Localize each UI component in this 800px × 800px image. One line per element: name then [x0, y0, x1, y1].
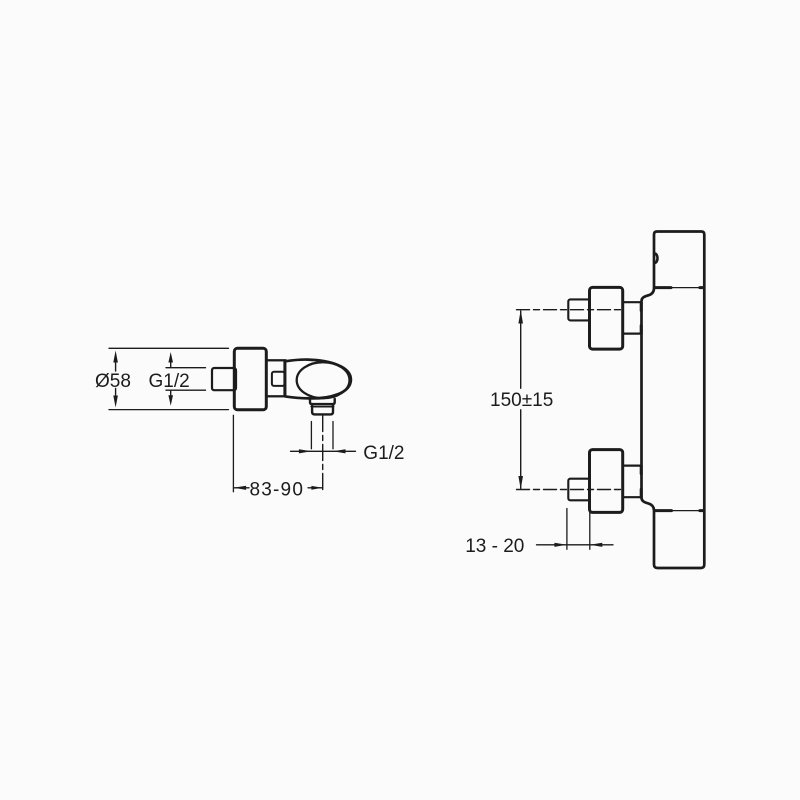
up arrow above (G1/2 left)	[168, 352, 173, 367]
outlet upper collar	[310, 399, 335, 404]
upper joint line	[655, 287, 703, 289]
ext line from flange left edge down	[232, 415, 234, 492]
dim ext line bottom (G1/2 left)	[166, 389, 206, 391]
dim line Ø58 lower with down arrow	[113, 389, 118, 408]
outlet dashed centerline	[322, 416, 324, 494]
ext line 13-20 right	[589, 509, 591, 550]
svg-text:83-90: 83-90	[250, 479, 305, 500]
lower centerline dashed	[517, 489, 622, 491]
svg-text:G1/2: G1/2	[363, 443, 404, 464]
svg-text:150±15: 150±15	[490, 390, 553, 411]
bump detail on bar left edge	[655, 254, 658, 263]
valve body knob ellipse	[297, 362, 350, 398]
shower bar body	[642, 232, 705, 569]
dim line 150±15	[518, 310, 523, 489]
lower union neck bottom edge	[623, 489, 641, 497]
lower union neck top edge	[623, 466, 641, 474]
lower union square pipe	[568, 479, 589, 501]
upper union neck top edge	[623, 302, 641, 310]
upper centerline dashed	[517, 309, 622, 311]
dim line G1/2 outlet	[291, 449, 356, 453]
dim line 83-90	[234, 486, 323, 490]
dim ext line top (G1/2 left)	[166, 367, 206, 369]
svg-text:G1/2: G1/2	[149, 371, 190, 392]
lower joint line	[655, 510, 703, 512]
dim ext line top (Ø58)	[109, 347, 229, 349]
inlet pipe	[212, 368, 236, 390]
down arrow below (G1/2 left)	[168, 390, 173, 405]
dim line Ø58 upper with up arrow	[113, 351, 118, 372]
nipple inside neck	[272, 372, 285, 386]
valve body outer profile	[285, 360, 351, 399]
upper union square pipe	[568, 299, 589, 320]
ext line 13-20 left	[566, 509, 568, 550]
dim line 13-20	[537, 543, 614, 547]
upper union body	[590, 287, 623, 349]
upper union neck bottom edge	[623, 326, 641, 334]
outlet ext line left	[310, 422, 312, 449]
lower union body	[590, 450, 623, 513]
svg-text:13 - 20: 13 - 20	[465, 536, 524, 557]
wall flange	[234, 348, 266, 410]
neck between flange and body	[266, 360, 285, 396]
outlet nut	[312, 404, 333, 414]
svg-text:Ø58: Ø58	[95, 371, 131, 392]
outlet ext line right	[332, 422, 334, 449]
joint line neck/body	[283, 362, 286, 396]
outlet seam line	[311, 406, 333, 408]
dim ext line bottom (Ø58)	[109, 409, 229, 411]
